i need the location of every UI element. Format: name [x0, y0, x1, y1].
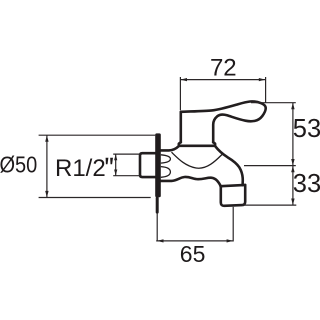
dia50 dim line: [46, 135, 48, 197]
R12 dim line: [115, 154, 117, 175]
svg-text:33: 33: [293, 170, 320, 198]
arrow R12 up: [114, 154, 117, 160]
svg-text:53: 53: [293, 115, 320, 143]
barrel saddle curve: [172, 152, 223, 168]
ext line handle top: [251, 102, 296, 104]
bonnet skirt: [179, 142, 215, 146]
hex nut chamfer arc lower: [161, 167, 171, 178]
65 ext line right: [232, 207, 234, 242]
hex nut chamfer arc upper: [161, 155, 171, 163]
svg-text:R1/2: R1/2: [55, 155, 106, 182]
dia50 ext line top: [39, 134, 156, 136]
arrow 33 down: [291, 199, 294, 206]
handle lever and bonnet outline: [181, 101, 266, 142]
arrow 72 left: [180, 78, 187, 81]
inch quote ticks: [106, 158, 109, 165]
arrow 65 left: [157, 239, 164, 242]
dia50 ext line bottom: [39, 197, 151, 199]
arrow 72 right: [259, 78, 266, 81]
arrow 65 right: [227, 239, 234, 242]
arrow 53 up: [291, 103, 294, 110]
arrow dia50 up: [45, 135, 48, 142]
wall shank below flange: [156, 197, 159, 214]
72 ext line left: [179, 77, 181, 110]
arrow R12 down: [114, 170, 117, 176]
wall flange: [155, 133, 161, 197]
53-33 dim line: [292, 103, 294, 205]
nut bottom and body underside into nozzle left edge: [160, 177, 221, 187]
wall line extension down to 65 dim: [156, 213, 158, 241]
svg-text:72: 72: [210, 55, 237, 82]
arrow 53 down / 33 up pair: [291, 159, 294, 166]
R12 ext line bottom: [113, 175, 140, 177]
R12 ext line top: [113, 153, 140, 155]
outlet nozzle: [221, 185, 245, 206]
inlet pipe R1/2: [140, 153, 156, 177]
65 dim line: [156, 240, 233, 242]
svg-text:Ø50: Ø50: [0, 151, 37, 178]
ext line body axis: [244, 165, 296, 167]
body top-left from flange to skirt: [160, 146, 179, 151]
72 ext line right: [265, 77, 267, 103]
ext line outlet bottom: [242, 204, 297, 206]
svg-text:65: 65: [180, 241, 206, 267]
arrow dia50 down: [45, 191, 48, 198]
nozzle joint line: [221, 185, 245, 186]
72 dim line: [180, 79, 265, 81]
body top-right to spout outer wall: [215, 146, 243, 185]
bonnet left edge: [180, 112, 183, 142]
